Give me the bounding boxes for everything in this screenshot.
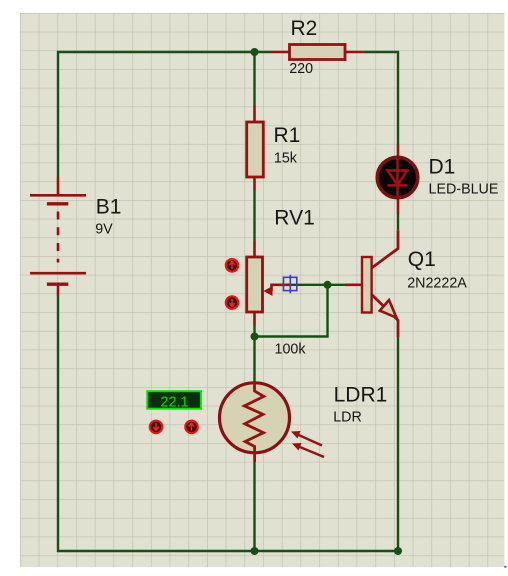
potentiometer RV1 wiper [272,285,291,291]
svg-text:LED-BLUE: LED-BLUE [429,181,499,197]
LDR1 body [220,383,290,453]
svg-text:Q1: Q1 [408,248,436,271]
LDR meter display [147,391,201,410]
resistor R2 [290,45,346,60]
battery B1 bottom cell short plate [47,283,68,286]
svg-text:LDR: LDR [333,409,362,425]
junction dot top [251,48,259,56]
LED D1 diode symbol [388,159,408,197]
resistor R2 pin stubs [271,51,364,54]
LED D1 pin stubs [397,145,400,215]
transistor Q1 emitter arrowhead [380,300,397,318]
wire top-right: R2 to LED [364,52,398,145]
battery B1 dashed link [57,212,60,263]
svg-text:LDR1: LDR1 [334,384,388,407]
wire emitter down, bottom rail, battery bottom [58,296,398,552]
LDR1 light arrow 2 [292,443,324,457]
wire wiper to base [290,284,345,286]
blue terminal marker [284,275,297,293]
transistor Q1 base bar [362,257,372,313]
wire RV1 bottom to LDR [253,326,255,382]
LED D1 body [377,157,418,198]
potentiometer RV1 body [247,257,263,312]
battery B1 top pin stub [57,177,60,195]
svg-text:R2: R2 [291,17,318,40]
LDR1 zigzag resistor [244,381,263,462]
junction dot wiper [324,281,332,289]
svg-text:100k: 100k [275,342,307,358]
junction dot bottom rail right [394,547,402,555]
svg-text:RV1: RV1 [274,207,314,230]
potentiometer RV1 wiper arrowhead [264,286,273,296]
svg-text:9V: 9V [95,222,113,238]
LDR1 light arrow 1 [291,431,322,446]
resistor R1 pin stubs [253,105,256,191]
battery B1 top cell long plate [30,194,86,197]
RV1 up button [226,259,238,271]
svg-text:2N2222A: 2N2222A [407,276,467,292]
resistor R1 [247,122,264,177]
wire wiper junction down to RV1 bottom node [255,285,328,337]
wire R1 to RV1 [253,191,255,241]
transistor Q1 emitter [372,295,398,338]
svg-text:D1: D1 [429,155,456,178]
battery B1 bottom pin stub [57,286,60,296]
svg-text:15k: 15k [274,151,298,167]
svg-text:B1: B1 [96,196,122,219]
junction dot bottom rail center [251,547,259,555]
svg-text:22.1: 22.1 [160,394,188,410]
svg-text:220: 220 [289,61,313,77]
svg-text:R1: R1 [274,124,301,147]
junction dot RV1 bottom node [251,333,259,341]
RV1 down button [226,296,238,308]
sheet corner mark [504,566,506,568]
wire junction to R1 [253,52,255,105]
wire LED to Q1 collector [397,214,399,230]
LDR up button [185,421,197,433]
battery B1 top cell short plate [47,202,68,205]
battery B1 bottom cell long plate [30,272,86,275]
potentiometer RV1 pin stubs [253,241,256,326]
transistor Q1 collector [372,230,398,268]
wire LDR bottom to rail [253,462,255,551]
wire top-left net: battery top to R2 [58,52,271,177]
LDR down button [150,421,162,433]
transistor Q1 base pin [345,283,362,286]
